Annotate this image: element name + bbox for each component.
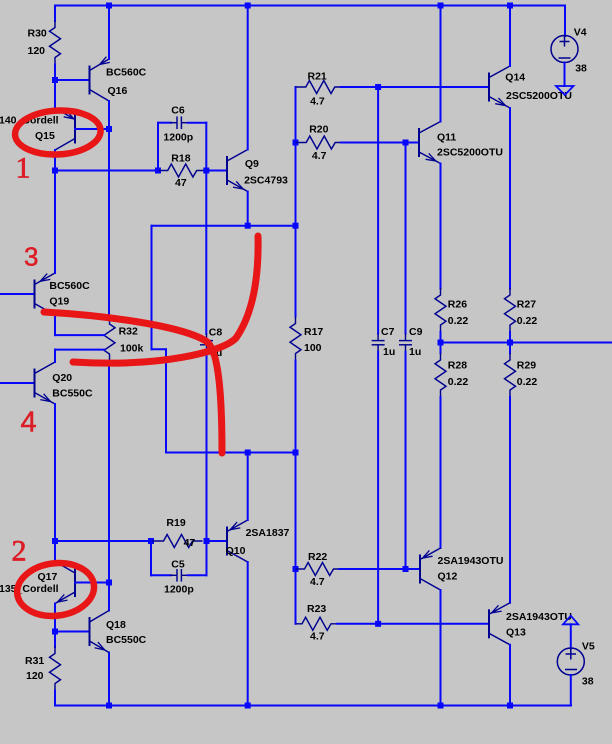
wire C6 loop right h xyxy=(188,122,206,124)
node node A xyxy=(52,168,58,174)
wire R31 to bottom rail xyxy=(54,691,56,706)
svg-text:47: 47 xyxy=(175,177,187,189)
svg-text:0.22: 0.22 xyxy=(517,315,538,327)
node out-R27 node xyxy=(507,340,513,346)
node rail-Q12 node xyxy=(438,703,444,709)
wire C8 loop jog h xyxy=(152,348,167,350)
wire R23 node to Q13 base xyxy=(378,623,489,625)
transistor Q20 (BC550C NPN) xyxy=(35,362,56,404)
svg-text:C7: C7 xyxy=(381,326,395,338)
node VAS-R17 node xyxy=(293,223,299,229)
svg-text:100k: 100k xyxy=(120,342,144,354)
wire Q19 base wire xyxy=(0,293,35,295)
wire mid col seg2 xyxy=(295,143,297,226)
node rail-Q10 node xyxy=(245,703,251,709)
transistor Q19 (BC560C PNP) xyxy=(35,273,56,315)
node Q18 base tap xyxy=(52,629,58,635)
transistor Q14 (2SC5200 NPN) xyxy=(489,66,510,108)
svg-text:3: 3 xyxy=(24,242,38,272)
wire V+ col seg1 xyxy=(54,6,56,22)
resistor R29 xyxy=(505,353,516,397)
wire Q17 base wire xyxy=(75,582,109,584)
wire node A to R18 xyxy=(55,170,158,172)
svg-text:1200p: 1200p xyxy=(163,131,193,143)
resistor R21 xyxy=(296,81,341,94)
svg-text:2: 2 xyxy=(12,535,27,568)
transistor Q15 (PNP mirrored) xyxy=(55,108,75,150)
svg-text:100: 100 xyxy=(304,342,322,354)
node rail-Q18 node xyxy=(106,703,112,709)
wire R28 to Q12 emitter xyxy=(440,397,442,548)
svg-text:Q10: Q10 xyxy=(226,545,246,557)
wire bias column lower xyxy=(108,361,110,583)
wire Q14 emitter down xyxy=(509,108,511,289)
svg-text:R20: R20 xyxy=(309,123,328,135)
svg-text:Q16: Q16 xyxy=(108,85,128,97)
resistor R28 xyxy=(435,353,446,397)
wire Q14 collector up xyxy=(509,6,511,67)
wire Q16 collector down xyxy=(108,101,110,129)
svg-text:R17: R17 xyxy=(304,326,323,338)
node rail-Q16col node xyxy=(106,3,112,9)
svg-text:Q20: Q20 xyxy=(52,372,72,384)
resistor R19 xyxy=(151,535,203,548)
svg-text:R18: R18 xyxy=(171,153,190,165)
node rail-Q11col node xyxy=(438,3,444,9)
transistor Q16 (BC560C PNP) xyxy=(90,59,110,101)
svg-text:Q13: Q13 xyxy=(506,626,526,638)
capacitor C7 xyxy=(372,334,385,352)
wire Q9 emitter down xyxy=(247,192,249,226)
node VAS node Q9e xyxy=(245,223,251,229)
wire mid col seg6 xyxy=(295,569,297,624)
resistor R22 xyxy=(296,563,340,576)
node R20 left node xyxy=(293,140,299,146)
wire Q15 base wire xyxy=(75,128,109,130)
svg-text:0.22: 0.22 xyxy=(517,376,538,388)
node out-R26 node xyxy=(438,340,444,346)
wire Q13 collector down xyxy=(509,645,511,706)
wire Q18 base wire xyxy=(55,631,90,633)
wire R29 to Q13 emitter xyxy=(509,397,511,603)
wire mid col seg4 xyxy=(295,361,297,453)
wire R20 node to Q11 base xyxy=(406,142,420,144)
svg-text:R32: R32 xyxy=(119,325,138,337)
svg-text:Q18: Q18 xyxy=(106,619,126,631)
wire Q20 emitter down xyxy=(54,404,56,541)
ground (V5, flipped) xyxy=(563,616,578,625)
wire V4 to ground xyxy=(564,63,566,87)
svg-text:120: 120 xyxy=(28,45,46,57)
transistor Q18 (BC550C NPN) xyxy=(90,611,110,653)
wire bias column upper xyxy=(108,129,110,318)
transistor Q13 (2SA1943 PNP) xyxy=(489,603,510,645)
svg-text:4.7: 4.7 xyxy=(310,631,325,643)
transistor Q11 (2SC5200 NPN) xyxy=(419,122,441,164)
svg-text:C5: C5 xyxy=(171,558,185,570)
wire R27 to out node xyxy=(509,332,511,343)
wire VAS row xyxy=(152,225,296,227)
svg-text:R23: R23 xyxy=(307,603,326,615)
node R18 right node xyxy=(203,168,209,174)
voltage source V4 xyxy=(551,36,578,63)
ground (V4) xyxy=(556,86,574,95)
wire C5 loop left h xyxy=(151,574,171,576)
wire top rail xyxy=(55,5,565,7)
wire Q18 emitter down xyxy=(108,653,110,706)
svg-text:Q12: Q12 xyxy=(438,570,458,582)
capacitor C8 xyxy=(200,334,213,352)
wire R32 lower stub xyxy=(55,349,105,351)
svg-text:135_Cordell: 135_Cordell xyxy=(0,583,59,595)
node Q17 base node xyxy=(106,580,112,586)
wire bottom rail xyxy=(55,705,571,707)
svg-text:C9: C9 xyxy=(409,326,423,338)
wire Q11 collector up xyxy=(440,6,442,122)
wire R21 left corner v xyxy=(295,87,297,143)
svg-text:R26: R26 xyxy=(448,299,467,311)
node comp-R17 node xyxy=(293,450,299,456)
node R22 left node xyxy=(293,566,299,572)
wire node B to Q17 collector xyxy=(54,541,56,562)
svg-text:2SA1837: 2SA1837 xyxy=(246,527,290,539)
svg-text:C8: C8 xyxy=(209,327,223,339)
wire Q12 collector down xyxy=(440,590,442,706)
wire C6 loop left h xyxy=(158,122,171,124)
svg-text:Q11: Q11 xyxy=(437,132,456,144)
node Q15 base node xyxy=(106,126,112,132)
wire C9 top wire xyxy=(405,143,407,334)
wire R18 to Q9 base xyxy=(206,170,227,172)
resistor R23 xyxy=(296,617,338,630)
wire R30 to Q16 base node xyxy=(54,65,56,81)
transistor Q12 (2SA1943 PNP) xyxy=(420,548,441,590)
wire C8 loop left v1 xyxy=(151,226,153,350)
svg-text:2SA1943OTU: 2SA1943OTU xyxy=(438,555,504,567)
red ellipse 1 (around Q15) xyxy=(14,108,102,156)
resistor R30 xyxy=(50,21,61,65)
node R18 left node xyxy=(155,168,161,174)
wire C7 top wire xyxy=(377,87,379,334)
wire R22 node to Q12 base xyxy=(406,568,421,570)
voltage source V5 xyxy=(557,648,584,675)
wire Q10 collector down xyxy=(247,562,249,706)
wire R22 to node xyxy=(340,568,406,570)
resistor R32 xyxy=(104,317,115,361)
svg-text:120: 120 xyxy=(26,670,44,682)
svg-text:Q17: Q17 xyxy=(38,571,58,583)
wire C5 loop left v xyxy=(150,541,152,575)
svg-text:4.7: 4.7 xyxy=(310,95,325,107)
wire Q19 collector down xyxy=(54,315,56,335)
svg-text:V5: V5 xyxy=(582,641,595,653)
resistor R17 xyxy=(290,317,301,361)
svg-text:47: 47 xyxy=(184,537,196,549)
wire node B to R19 xyxy=(55,540,151,542)
wire C7 bottom wire xyxy=(377,352,379,624)
wire C9 bottom wire xyxy=(405,352,407,569)
node R19 left node xyxy=(148,538,154,544)
node comp-Q10 node xyxy=(245,450,251,456)
wire R26 to out node xyxy=(440,332,442,343)
node R19 right node xyxy=(204,538,210,544)
wire R23 to node xyxy=(337,623,378,625)
wire Q18 tap to R31 xyxy=(54,632,56,648)
resistor R26 xyxy=(435,288,446,332)
wire C6 loop right v xyxy=(205,123,207,171)
capacitor C9 xyxy=(399,334,412,352)
node rail-Q14col node xyxy=(507,3,513,9)
svg-text:4.7: 4.7 xyxy=(310,576,325,588)
svg-text:1u: 1u xyxy=(409,346,421,358)
wire Q17 emitter down xyxy=(54,604,56,632)
wire Q16 base wire xyxy=(55,79,90,81)
wire rail to V4 xyxy=(564,6,566,37)
svg-text:R21: R21 xyxy=(308,70,327,82)
wire C8 bottom wire xyxy=(206,352,208,542)
svg-text:Q14: Q14 xyxy=(505,72,525,84)
svg-text:Q9: Q9 xyxy=(245,158,259,170)
svg-text:2SA1943OTU: 2SA1943OTU xyxy=(506,611,572,623)
wire C6 loop left v xyxy=(157,123,159,171)
wire Q11 emitter down xyxy=(440,164,442,289)
node C9-R22 node xyxy=(403,566,409,572)
svg-text:R29: R29 xyxy=(517,360,536,372)
node Q16 base tap xyxy=(52,77,58,83)
svg-text:BC550C: BC550C xyxy=(52,388,93,400)
node rail-Q13 node xyxy=(507,703,513,709)
svg-text:BC560C: BC560C xyxy=(106,66,147,78)
wire Q9 collector up xyxy=(247,6,249,150)
svg-text:4: 4 xyxy=(21,407,37,439)
svg-text:0.22: 0.22 xyxy=(448,315,469,327)
wire R32 stub to Q20 collector xyxy=(54,350,56,362)
svg-text:4.7: 4.7 xyxy=(312,150,327,162)
wire R21 to node xyxy=(341,86,378,88)
svg-text:0.22: 0.22 xyxy=(448,376,469,388)
wire mid col seg5 xyxy=(295,453,297,570)
transistor Q17 (NPN mirrored) xyxy=(55,562,75,604)
wire C5 loop right v xyxy=(206,541,208,575)
capacitor C5 xyxy=(170,569,188,582)
wire R19 to Q10 base xyxy=(207,540,228,542)
wire to Q18 collector xyxy=(108,583,110,611)
wire V5 to bottom rail xyxy=(570,675,572,706)
node R21 right node xyxy=(375,84,381,90)
svg-text:R28: R28 xyxy=(448,360,467,372)
transistor Q10 (2SA1837 PNP) xyxy=(227,520,248,562)
svg-text:38: 38 xyxy=(575,63,587,75)
node node B xyxy=(52,538,58,544)
red ellipse 2 (around Q17) xyxy=(14,559,97,620)
resistor R31 xyxy=(50,647,61,691)
svg-text:Q15: Q15 xyxy=(35,130,55,142)
svg-text:2SC5200OTU: 2SC5200OTU xyxy=(437,147,503,159)
wire R21 node to Q14 base xyxy=(378,86,489,88)
wire node to Q15 emitter xyxy=(54,80,56,109)
resistor R27 xyxy=(505,288,516,332)
node rail-Q9col node xyxy=(245,3,251,9)
svg-text:C6: C6 xyxy=(171,104,185,116)
wire R32 upper stub xyxy=(55,334,105,336)
red curve stroke 2 xyxy=(73,236,258,363)
node C7-R23 node xyxy=(375,621,381,627)
wire C5 loop right h xyxy=(188,574,207,576)
wire Q10 emitter up xyxy=(247,453,249,521)
wire C8 loop left v2 xyxy=(165,349,167,452)
svg-text:R19: R19 xyxy=(166,517,185,529)
svg-text:R30: R30 xyxy=(28,28,47,40)
wire Q20 base wire xyxy=(0,382,35,384)
svg-text:38: 38 xyxy=(582,676,594,688)
wire C8 top lead wire xyxy=(205,171,207,335)
wire Q15 collector to node xyxy=(54,150,56,171)
svg-text:V4: V4 xyxy=(574,27,587,39)
svg-text:R31: R31 xyxy=(25,655,44,667)
wire comp row xyxy=(166,452,296,454)
svg-text:BC560C: BC560C xyxy=(49,280,90,292)
capacitor C6 xyxy=(170,116,188,129)
svg-text:1200p: 1200p xyxy=(164,584,194,596)
wire Q16 emitter to rail xyxy=(108,6,110,60)
svg-text:R27: R27 xyxy=(517,299,536,311)
svg-text:1: 1 xyxy=(16,152,31,185)
resistor R18 xyxy=(158,164,206,177)
svg-text:BC550C: BC550C xyxy=(106,634,147,646)
resistor R20 xyxy=(296,136,342,149)
wire out to R29 xyxy=(509,343,511,354)
node R20 right node xyxy=(403,140,409,146)
wire mid col seg3 xyxy=(295,226,297,317)
wire output wire xyxy=(441,342,612,344)
svg-text:Q19: Q19 xyxy=(49,296,69,308)
wire out to R28 xyxy=(440,343,442,354)
wire ground to V5 xyxy=(570,624,572,648)
wire node A to Q19 emitter xyxy=(54,171,56,274)
transistor Q9 (2SC4793 NPN) xyxy=(227,150,248,192)
svg-text:2SC4793: 2SC4793 xyxy=(244,174,288,186)
svg-text:R22: R22 xyxy=(308,551,327,563)
red curve stroke 1 xyxy=(44,312,222,453)
svg-text:1u: 1u xyxy=(383,346,395,358)
wire R20 to node xyxy=(341,142,405,144)
